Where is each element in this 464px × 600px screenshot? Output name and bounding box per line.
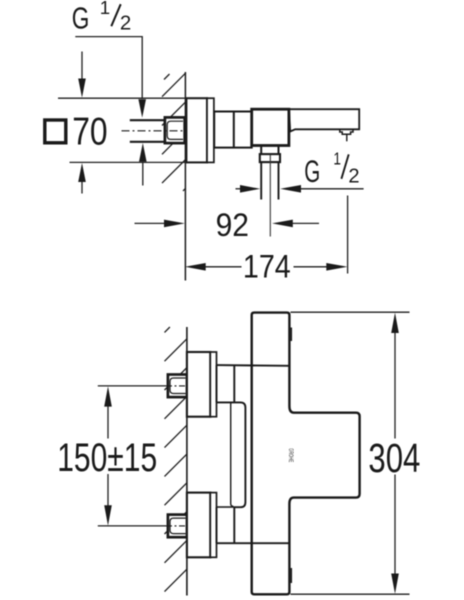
upper nut centerline (dash-dot) — [166, 385, 190, 387]
svg-text:G: G — [72, 1, 90, 36]
upper nut inner chamfer — [170, 378, 186, 394]
G 1/2 top arrow (down, at nut top) — [138, 99, 146, 117]
lower nut inner chamfer — [170, 518, 186, 534]
174 dimension line left part + arrow — [185, 263, 242, 271]
70 dim top arrow (down) — [78, 52, 86, 98]
174 right extension line — [347, 196, 349, 274]
panel right side joined with connector bottom/top edges — [217, 402, 246, 507]
lower flange lip — [210, 493, 216, 558]
valve body (top view) — [252, 109, 289, 145]
lower escutcheon flange (plan) — [187, 493, 210, 558]
svg-text:G: G — [304, 153, 320, 189]
supply pipe stub bottom edge — [130, 141, 166, 143]
150 dim line upper part + arrow (up) — [104, 386, 112, 438]
150 dim bottom extension line — [98, 525, 166, 527]
G 1/2 right: left arrow (points right at pipe) — [236, 185, 261, 193]
G 1/2 top leader line — [75, 37, 142, 99]
faucet body slab + center protrusion outline (plan) — [252, 313, 360, 595]
svg-text:2: 2 — [348, 165, 359, 187]
svg-text:1: 1 — [333, 148, 341, 168]
304 dim line lower part + arrow (down) — [391, 475, 399, 594]
connector body — [214, 112, 252, 148]
wall hatching (top view) — [162, 73, 186, 191]
304 top extension line — [291, 311, 410, 313]
aerator on spout — [340, 130, 353, 135]
lower seam line across slab — [217, 542, 290, 544]
wall hatching (bottom view) — [165, 327, 188, 592]
upper union nut (plan) — [168, 375, 187, 398]
svg-text:150±15: 150±15 — [57, 436, 157, 480]
lower nut centerline (dash-dot) — [166, 525, 190, 527]
lower union nut (plan) — [168, 515, 187, 538]
outlet centerline / 92 right extension — [269, 155, 271, 237]
svg-text:92: 92 — [216, 207, 249, 243]
150 dim top extension line — [98, 385, 166, 387]
lower edge tick on slab right edge — [290, 568, 292, 583]
square symbol of 70 label — [45, 120, 66, 143]
svg-text:GROHE: GROHE — [287, 448, 293, 462]
lower connector (plan) — [217, 507, 235, 543]
G 1/2 top label text — [72, 0, 132, 36]
outlet pipe walls — [261, 162, 278, 199]
70 dim top extension line — [58, 97, 186, 99]
150 dim line lower part + arrow (down) — [104, 474, 112, 526]
escutcheon flange (top view) — [186, 98, 207, 162]
svg-text:1: 1 — [100, 0, 110, 18]
outlet ring — [260, 154, 280, 162]
92 right arrow (points left at outlet centerline) — [272, 220, 319, 228]
upper flange lip — [210, 352, 216, 417]
upper connector (plan) — [217, 365, 235, 402]
svg-text:70: 70 — [72, 111, 107, 154]
92 left arrow (points right at wall) — [135, 220, 185, 228]
upper edge tick on slab right edge — [290, 328, 292, 342]
304 bottom extension line — [291, 593, 410, 595]
G 1/2 right label text (outlet thread) — [304, 148, 359, 189]
middle panel left edge — [231, 401, 234, 506]
70 dim bottom arrow (up) — [78, 163, 86, 194]
svg-text:2: 2 — [120, 13, 131, 35]
174 dimension line right part + arrow — [294, 263, 348, 271]
304 dim line upper part + arrow (up) — [391, 313, 399, 439]
svg-text:304: 304 — [368, 435, 420, 481]
G 1/2 right: right arrow (points left at pipe) + underline — [280, 185, 363, 193]
upper seam line across slab — [217, 364, 290, 367]
union nut (top view) — [165, 117, 185, 143]
wall face line / 92-174 left extension line (top view) — [184, 72, 186, 281]
supply centerline (dash-dot) — [122, 130, 187, 132]
union nut inner chamfer — [167, 121, 183, 139]
supply pipe stub top edge — [130, 119, 166, 121]
70 dim bottom extension line — [70, 161, 187, 163]
wall face line (bottom view) — [186, 327, 188, 596]
upper escutcheon flange (plan) — [187, 352, 210, 417]
flange lip ring — [207, 98, 214, 162]
svg-text:174: 174 — [243, 248, 291, 284]
connector divider line — [233, 112, 235, 148]
aerator tick — [346, 134, 348, 141]
spout (top view) — [289, 109, 359, 131]
outlet neck below body — [261, 146, 278, 154]
G 1/2 lower arrow (up, at nut bottom) — [139, 143, 147, 186]
